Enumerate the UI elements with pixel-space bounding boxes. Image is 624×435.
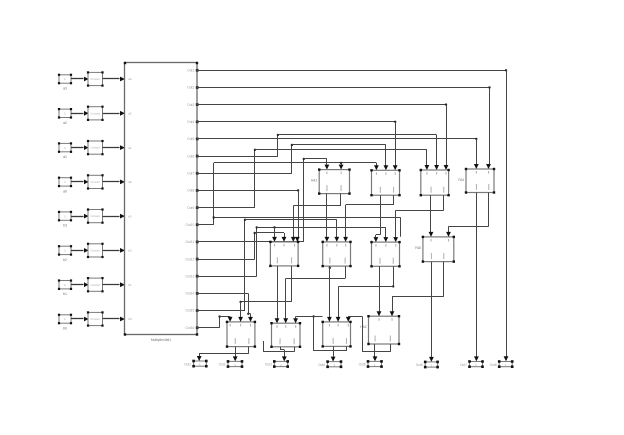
svg-text:Out2: Out2 bbox=[187, 86, 194, 90]
svg-text:Out16: Out16 bbox=[185, 326, 194, 330]
convert block b0 bbox=[87, 311, 104, 326]
convert block a1 bbox=[87, 140, 104, 155]
svg-text:Convert: Convert bbox=[90, 214, 100, 218]
wire net Out5 to adder FA4 left input bbox=[197, 138, 479, 169]
wire net FA7 cout to FA11 middle input bbox=[336, 266, 395, 322]
terminator Out6 bbox=[416, 361, 439, 369]
svg-text:b2: b2 bbox=[63, 258, 67, 262]
svg-text:FA4: FA4 bbox=[458, 178, 464, 182]
terminator Out7 bbox=[460, 360, 484, 368]
subsystem U1 input port labels bbox=[128, 77, 132, 321]
terminator Out8 bbox=[490, 360, 514, 368]
svg-text:Out10: Out10 bbox=[185, 223, 194, 227]
wire net FA4 cout to FA8 right input bbox=[446, 193, 489, 237]
svg-text:Out8: Out8 bbox=[187, 189, 194, 193]
svg-text:Multiplier4bit1: Multiplier4bit1 bbox=[151, 338, 172, 342]
svg-text:a1: a1 bbox=[128, 146, 132, 150]
wire net Out11 to adder HA1 left input bbox=[197, 158, 329, 242]
terminator Out1 bbox=[184, 360, 207, 368]
svg-text:Out4: Out4 bbox=[187, 120, 194, 124]
adder block FA5 bbox=[269, 241, 299, 267]
svg-text:a2: a2 bbox=[128, 112, 132, 116]
wire convert b2 to subsystem port In6 bbox=[103, 248, 126, 253]
wire constant b2 to convert bbox=[71, 248, 89, 253]
adder block FA4 bbox=[458, 168, 495, 194]
adder block HA1 bbox=[311, 168, 351, 194]
wire constant b0 to convert bbox=[71, 317, 89, 322]
svg-text:b1: b1 bbox=[63, 292, 67, 296]
adder block FA2 bbox=[370, 169, 400, 196]
constant b0 bbox=[58, 314, 72, 331]
wire net FA11 cout to FA10 right input bbox=[293, 315, 346, 351]
svg-text:Out8: Out8 bbox=[490, 363, 497, 367]
wire constant a1 to convert bbox=[71, 145, 89, 150]
svg-text:Out14: Out14 bbox=[185, 292, 194, 296]
wire net Out2 to adder FA4 right input bbox=[197, 86, 491, 169]
adder block FA10 bbox=[270, 322, 301, 348]
wire net Out3 to adder FA3 right input bbox=[197, 103, 448, 170]
terminator Out3 bbox=[265, 360, 289, 368]
wire net FA6 cout to FA10 middle input bbox=[283, 266, 345, 323]
svg-text:b1: b1 bbox=[128, 283, 132, 287]
wire net Out16 to adder FA9 left input bbox=[197, 315, 233, 327]
constant a0 bbox=[58, 177, 72, 194]
wire net FA2 cout to FA6 right input bbox=[343, 195, 393, 242]
svg-text:Convert: Convert bbox=[90, 317, 100, 321]
wire net Out10 to adder HA1 right and FA2 left inputs bbox=[197, 162, 401, 237]
svg-text:Out7: Out7 bbox=[460, 363, 467, 367]
adder block FA3 bbox=[420, 169, 450, 197]
wire constant a0 to convert bbox=[71, 180, 89, 185]
wire convert a0 to subsystem port In4 bbox=[103, 180, 126, 185]
wire net Out8 to adder FA5 right input bbox=[197, 189, 300, 242]
wire net FA5 cout to FA9 middle input bbox=[238, 266, 291, 322]
wire net FA4 sum to terminator Out7 bbox=[474, 193, 479, 362]
svg-text:Convert: Convert bbox=[90, 180, 100, 184]
terminator Out5 bbox=[359, 360, 383, 368]
wire convert a2 to subsystem port In2 bbox=[103, 111, 126, 116]
svg-text:Out1: Out1 bbox=[184, 362, 191, 366]
adder block FA7 bbox=[370, 241, 400, 268]
svg-text:a0: a0 bbox=[128, 180, 132, 184]
wire net Out6 to adder FA3 middle input bbox=[197, 134, 439, 170]
wire net FA10 cout wrap bbox=[263, 341, 294, 352]
constant b2 bbox=[58, 245, 72, 262]
svg-text:Convert: Convert bbox=[90, 283, 100, 287]
svg-text:FA8: FA8 bbox=[415, 246, 421, 250]
wire net FA8 cout to HA12 right input bbox=[390, 262, 444, 317]
wire constant a3 to convert bbox=[71, 77, 89, 82]
svg-text:Out4: Out4 bbox=[318, 363, 325, 367]
svg-text:b0: b0 bbox=[63, 327, 67, 331]
svg-text:Convert: Convert bbox=[90, 249, 100, 253]
svg-text:Out6: Out6 bbox=[416, 363, 423, 367]
wire net FA3 cout to FA7 right input bbox=[393, 195, 443, 242]
svg-text:Out9: Out9 bbox=[187, 206, 194, 210]
wire net HA1 sum to FA6 left input bbox=[325, 194, 330, 242]
svg-text:Out11: Out11 bbox=[186, 240, 195, 244]
svg-text:Out6: Out6 bbox=[187, 154, 194, 158]
wire net Out13 to adder FA5 left and FA7 middle inputs bbox=[197, 226, 388, 276]
wire net Out15 to adder FA6 middle input bbox=[197, 219, 339, 311]
svg-text:HA2: HA2 bbox=[360, 325, 366, 329]
svg-text:b3: b3 bbox=[128, 214, 132, 218]
constant b3 bbox=[58, 211, 72, 228]
svg-text:Out3: Out3 bbox=[265, 363, 272, 367]
wire net HA12 sum to terminator Out5 bbox=[373, 344, 378, 361]
adder block HA12 bbox=[360, 315, 400, 345]
adder block FA8 bbox=[415, 236, 455, 263]
wire net Out4 to adder FA2 right input bbox=[197, 121, 398, 171]
svg-text:Out12: Out12 bbox=[185, 257, 194, 261]
svg-text:HA1: HA1 bbox=[311, 179, 317, 183]
wire constant b3 to convert bbox=[71, 214, 89, 219]
terminator Out4 bbox=[318, 360, 342, 368]
wire convert a3 to subsystem port In1 bbox=[103, 77, 126, 82]
convert block b2 bbox=[87, 243, 104, 258]
constant a2 bbox=[58, 108, 72, 125]
svg-text:Convert: Convert bbox=[90, 146, 100, 150]
wire net FA10 sum to terminator Out3 bbox=[280, 347, 287, 362]
adder block FA9 bbox=[226, 321, 256, 348]
wire convert a1 to subsystem port In3 bbox=[103, 145, 126, 150]
wire net FA11 sum to terminator Out4 bbox=[331, 346, 336, 361]
svg-text:Out13: Out13 bbox=[185, 274, 194, 278]
svg-text:Out5: Out5 bbox=[187, 137, 194, 141]
wire net FA5 sum to FA10 left input bbox=[275, 266, 280, 323]
wire net FA2 sum to FA7 left input bbox=[374, 195, 381, 242]
convert block a3 bbox=[87, 71, 104, 86]
wire net FA9 sum to terminator Out2 bbox=[233, 347, 238, 362]
wire net Out14 to adder FA9 right input bbox=[197, 293, 253, 322]
constant b1 bbox=[58, 279, 72, 296]
svg-text:b0: b0 bbox=[128, 317, 132, 321]
wire net FA6 sum to FA11 left input bbox=[327, 266, 332, 322]
svg-text:Out3: Out3 bbox=[187, 103, 194, 107]
svg-text:Convert: Convert bbox=[90, 77, 100, 81]
adder block FA6 bbox=[322, 241, 352, 268]
svg-text:a3: a3 bbox=[63, 87, 67, 91]
subsystem U1 output port labels and stubs bbox=[185, 69, 198, 330]
convert block b3 bbox=[87, 208, 104, 223]
convert block b1 bbox=[87, 277, 104, 292]
svg-text:Convert: Convert bbox=[90, 111, 100, 115]
subsystem U1 multiplier 4bit bbox=[124, 62, 198, 342]
wire constant a2 to convert bbox=[71, 111, 89, 116]
wire constant b1 to convert bbox=[71, 282, 89, 287]
wire convert b3 to subsystem port In5 bbox=[103, 214, 126, 219]
svg-text:Out5: Out5 bbox=[359, 363, 366, 367]
wire net Out9 to adder FA3 left input bbox=[197, 149, 429, 208]
svg-text:a2: a2 bbox=[63, 121, 67, 125]
wire net FA8 sum to terminator Out6 bbox=[429, 262, 434, 362]
wire net HA1 cout to FA5 right input bbox=[291, 194, 341, 242]
wire convert b1 to subsystem port In7 bbox=[103, 282, 126, 287]
constant a3 bbox=[58, 74, 72, 91]
svg-text:Out15: Out15 bbox=[185, 309, 194, 313]
svg-text:Out1: Out1 bbox=[187, 69, 194, 73]
svg-text:a3: a3 bbox=[128, 77, 132, 81]
svg-text:b2: b2 bbox=[128, 249, 132, 253]
wire net Out1 to terminator Out8 bbox=[197, 69, 508, 361]
wire net HA12 cout to FA11 right input bbox=[346, 316, 391, 352]
svg-text:Out7: Out7 bbox=[187, 172, 194, 176]
svg-text:Out2: Out2 bbox=[219, 363, 226, 367]
wire net FA3 sum to FA8 left input bbox=[429, 195, 434, 237]
convert block a0 bbox=[87, 174, 104, 189]
wire net FA7 sum to HA12 left input bbox=[377, 266, 382, 316]
wire net Out7 to adder FA2 middle input bbox=[197, 144, 388, 174]
wire net FA9 cout to terminator Out1 bbox=[197, 347, 249, 361]
wire net Out12 to adder FA5 middle input bbox=[197, 232, 286, 260]
wire convert b0 to subsystem port In8 bbox=[103, 317, 126, 322]
adder block FA11 bbox=[322, 321, 352, 348]
svg-text:a1: a1 bbox=[63, 155, 67, 159]
convert block a2 bbox=[87, 106, 104, 121]
constant a1 bbox=[58, 142, 72, 159]
terminator Out2 bbox=[219, 360, 244, 368]
svg-text:a0: a0 bbox=[63, 189, 67, 193]
svg-text:b3: b3 bbox=[63, 224, 67, 228]
